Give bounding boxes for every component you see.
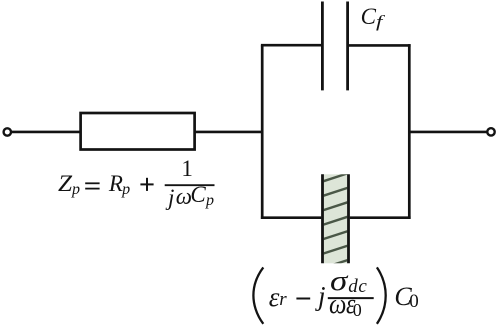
resistor Z_p (box) [81, 113, 195, 150]
right parenthesis of sample label [377, 267, 386, 323]
sample capacitor dielectric fill [323, 174, 349, 263]
denominator epsilon [346, 291, 357, 319]
fraction bar of Z_p equation [165, 184, 215, 186]
numerator sigma [330, 268, 344, 296]
denominator subscript 0 [353, 301, 362, 319]
right terminal [487, 128, 494, 135]
wire: right vertical of parallel block [408, 44, 411, 219]
subscript p of Z_p [72, 182, 80, 198]
wire: left vertical of parallel block [261, 45, 264, 219]
sample capacitor right electrode [347, 174, 350, 263]
wire: top branch right segment [349, 44, 411, 47]
wire: bottom branch left segment [261, 216, 321, 219]
denominator subscript p [206, 193, 214, 209]
label R of R_p [109, 172, 123, 195]
sample capacitor hatch lines [323, 173, 349, 268]
wire: bottom branch right segment [350, 216, 411, 219]
label C_f [361, 5, 376, 28]
plus sign of Z_p equation [140, 183, 153, 185]
capacitor C_f right plate [346, 2, 349, 91]
label Z of Z_p [58, 172, 71, 195]
subscript r of epsilon_r [279, 290, 286, 309]
wire: resistor to parallel block [195, 131, 264, 134]
left terminal [4, 128, 11, 135]
label j of sample equation [318, 283, 326, 310]
denominator omega [176, 185, 192, 208]
label C of C_0 [394, 284, 411, 310]
left parenthesis of sample label [253, 267, 263, 323]
label epsilon_r [269, 284, 280, 311]
label C_f subscript f [376, 13, 381, 30]
denominator j [168, 186, 174, 209]
minus sign of sample label [296, 298, 310, 300]
fraction numerator 1 [181, 157, 193, 180]
capacitor C_f left plate [321, 2, 324, 91]
denominator omega [329, 291, 349, 319]
wire: left terminal to resistor [12, 131, 81, 134]
wire: parallel block to right terminal [409, 131, 487, 134]
subscript p of R_p [122, 182, 130, 198]
numerator subscript dc [348, 277, 367, 296]
equals sign of Z_p equation [85, 182, 99, 184]
fraction bar of sample label [328, 297, 374, 299]
sample capacitor left electrode [321, 174, 324, 263]
wire: top branch left segment [261, 44, 321, 47]
subscript 0 of C_0 [409, 292, 419, 311]
denominator C [190, 183, 205, 206]
